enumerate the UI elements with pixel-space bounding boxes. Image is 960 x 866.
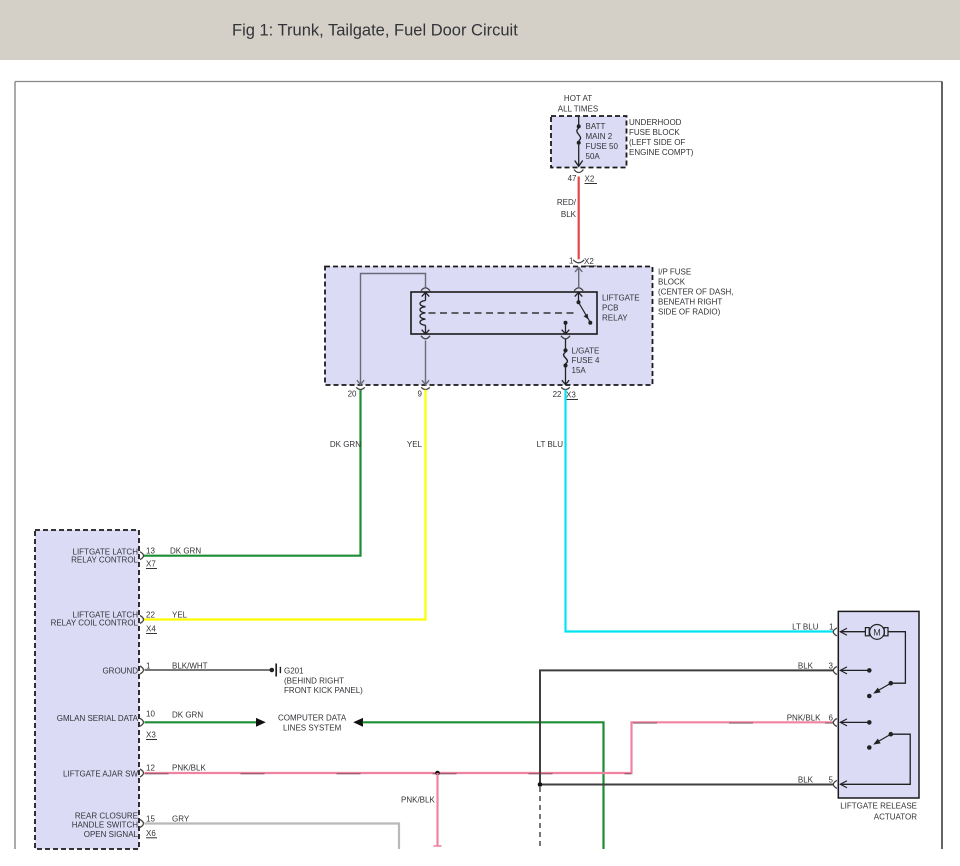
liftgate release actuator box <box>838 611 919 821</box>
svg-text:PNK/BLK: PNK/BLK <box>787 714 821 723</box>
svg-text:I/P FUSE: I/P FUSE <box>658 268 691 277</box>
svg-text:FUSE 4: FUSE 4 <box>572 356 601 365</box>
svg-text:9: 9 <box>418 390 423 399</box>
svg-text:BLK: BLK <box>798 662 814 671</box>
svg-text:YEL: YEL <box>407 440 423 449</box>
svg-text:RELAY CONTROL: RELAY CONTROL <box>71 556 138 565</box>
connector pin 20 <box>348 387 365 398</box>
svg-text:GMLAN SERIAL DATA: GMLAN SERIAL DATA <box>57 714 139 723</box>
svg-text:LT BLU: LT BLU <box>792 623 819 632</box>
svg-text:X3: X3 <box>566 391 576 400</box>
svg-text:LIFTGATE RELEASE: LIFTGATE RELEASE <box>840 802 917 811</box>
node computer data lines system <box>278 714 347 733</box>
svg-text:5: 5 <box>829 776 834 785</box>
pin 15 X6 rear closure handle switch, wire GRY <box>72 812 399 850</box>
svg-text:47: 47 <box>568 174 577 183</box>
wire BLK pins 3-5 <box>538 662 834 848</box>
svg-text:X7: X7 <box>146 560 156 569</box>
svg-text:10: 10 <box>146 710 155 719</box>
svg-text:BLK: BLK <box>561 210 577 219</box>
svg-text:(LEFT SIDE OF: (LEFT SIDE OF <box>629 138 685 147</box>
pin 12 liftgate ajar sw, wire PNK/BLK <box>63 722 834 778</box>
svg-text:M: M <box>873 627 881 637</box>
svg-text:BATT: BATT <box>586 122 606 131</box>
wire DK GRN computer data continuation <box>353 718 603 849</box>
title bar <box>0 0 960 60</box>
svg-text:DK GRN: DK GRN <box>172 711 203 720</box>
connector pin 47 X2 <box>568 170 597 184</box>
svg-text:LIFTGATE: LIFTGATE <box>602 294 640 303</box>
svg-text:X6: X6 <box>146 829 156 838</box>
svg-text:G201: G201 <box>284 667 304 676</box>
svg-text:Fig 1: Trunk, Tailgate, Fuel D: Fig 1: Trunk, Tailgate, Fuel Door Circui… <box>232 22 518 40</box>
svg-text:GRY: GRY <box>172 815 190 824</box>
svg-text:50A: 50A <box>586 152 601 161</box>
svg-text:3: 3 <box>829 662 834 671</box>
svg-text:22: 22 <box>146 611 155 620</box>
svg-text:RED/: RED/ <box>557 198 577 207</box>
svg-text:L/GATE: L/GATE <box>572 347 600 356</box>
wire LT BLU <box>537 390 834 632</box>
svg-text:RELAY: RELAY <box>602 314 628 323</box>
wire internal pin20 jog <box>357 274 430 385</box>
wire YEL coil control <box>144 390 426 620</box>
pin 22 X4 liftgate latch relay coil control <box>51 611 157 634</box>
svg-text:LIFTGATE AJAR SW: LIFTGATE AJAR SW <box>63 770 138 779</box>
svg-text:X3: X3 <box>146 731 156 740</box>
svg-text:BLK/WHT: BLK/WHT <box>172 662 208 671</box>
ground G201 <box>270 664 364 695</box>
svg-text:REAR CLOSURE: REAR CLOSURE <box>75 812 138 821</box>
connector pin 1 X2 <box>569 257 596 267</box>
I/P fuse block box <box>325 267 734 386</box>
svg-text:PNK/BLK: PNK/BLK <box>172 764 206 773</box>
svg-text:HANDLE SWITCH: HANDLE SWITCH <box>72 821 138 830</box>
svg-text:ACTUATOR: ACTUATOR <box>874 813 917 822</box>
svg-text:FUSE BLOCK: FUSE BLOCK <box>629 128 680 137</box>
svg-text:X2: X2 <box>584 257 594 266</box>
wire RED/BLK <box>557 177 579 260</box>
svg-text:FRONT KICK PANEL): FRONT KICK PANEL) <box>284 686 363 695</box>
svg-text:BENEATH RIGHT: BENEATH RIGHT <box>658 298 722 307</box>
actuator pin 3 connector <box>829 662 872 675</box>
actuator pin 1 connector <box>829 623 847 636</box>
svg-text:MAIN 2: MAIN 2 <box>586 132 613 141</box>
wire internal pin1 drop <box>574 268 583 291</box>
junction and PNK/BLK drop <box>401 771 442 846</box>
fuse L/GATE FUSE 4 15A <box>561 336 600 385</box>
actuator pin 5 connector <box>829 776 847 789</box>
pin 1 ground, wire BLK/WHT <box>102 662 271 676</box>
svg-text:RELAY COIL CONTROL: RELAY COIL CONTROL <box>51 619 139 628</box>
svg-text:LINES SYSTEM: LINES SYSTEM <box>283 724 342 733</box>
relay box LIFTGATE PCB RELAY <box>411 292 640 334</box>
svg-text:(BEHIND RIGHT: (BEHIND RIGHT <box>284 676 344 685</box>
svg-text:UNDERHOOD: UNDERHOOD <box>629 118 682 127</box>
pin 10 X3 GMLAN serial data, wire DK GRN <box>57 710 266 740</box>
svg-text:(CENTER OF DASH,: (CENTER OF DASH, <box>658 288 734 297</box>
svg-text:HOT AT: HOT AT <box>564 94 592 103</box>
liftgate module box <box>35 530 139 849</box>
actuator switch 1 <box>867 681 893 698</box>
svg-text:LT BLU: LT BLU <box>537 440 564 449</box>
svg-text:DK GRN: DK GRN <box>330 440 361 449</box>
svg-text:OPEN SIGNAL: OPEN SIGNAL <box>84 830 139 839</box>
svg-text:BLOCK: BLOCK <box>658 278 686 287</box>
svg-text:22: 22 <box>553 390 562 399</box>
svg-text:ALL TIMES: ALL TIMES <box>558 105 598 114</box>
underhood fuse block box <box>551 94 694 168</box>
svg-text:DK GRN: DK GRN <box>170 547 201 556</box>
relay switch <box>562 292 593 334</box>
pin 13 X7 liftgate latch relay control <box>71 547 157 569</box>
wire DK GRN relay control <box>144 390 361 556</box>
svg-text:13: 13 <box>146 547 155 556</box>
svg-text:X4: X4 <box>146 625 156 634</box>
svg-text:ENGINE COMPT): ENGINE COMPT) <box>629 148 694 157</box>
relay coil <box>420 292 429 334</box>
actuator switch 2 <box>840 732 910 784</box>
svg-text:BLK: BLK <box>798 776 814 785</box>
actuator pin 6 connector <box>829 714 872 727</box>
svg-text:20: 20 <box>348 390 357 399</box>
fuse BATT MAIN 2 FUSE 50 50A <box>575 116 619 166</box>
connector pin 22 X3 <box>553 387 578 399</box>
svg-text:YEL: YEL <box>172 611 188 620</box>
motor M <box>840 625 905 684</box>
svg-text:1: 1 <box>829 623 834 632</box>
svg-text:FUSE 50: FUSE 50 <box>586 142 619 151</box>
svg-text:1: 1 <box>569 257 574 266</box>
svg-text:PCB: PCB <box>602 304 618 313</box>
relay dashed actuation link <box>429 312 578 314</box>
svg-text:15: 15 <box>146 815 155 824</box>
svg-text:PNK/BLK: PNK/BLK <box>401 796 435 805</box>
svg-text:1: 1 <box>146 662 151 671</box>
connector pin 9 <box>418 387 430 398</box>
svg-text:6: 6 <box>829 714 834 723</box>
svg-text:12: 12 <box>146 764 155 773</box>
svg-text:COMPUTER DATA: COMPUTER DATA <box>278 714 347 723</box>
svg-text:X2: X2 <box>585 175 595 184</box>
svg-text:15A: 15A <box>572 366 587 375</box>
svg-text:SIDE OF RADIO): SIDE OF RADIO) <box>658 308 721 317</box>
wire internal pin9 drop <box>421 336 430 385</box>
svg-text:GROUND: GROUND <box>102 667 138 676</box>
